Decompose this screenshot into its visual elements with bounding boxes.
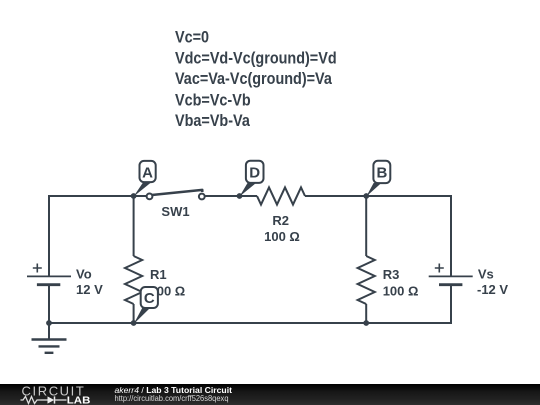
wire switch to node D / R2 left lead: [205, 195, 257, 197]
ground bar 2: [39, 345, 60, 347]
wire left vertical upper (to Vo +): [48, 195, 50, 276]
node A callout box: [140, 161, 156, 182]
node D callout tail: [240, 183, 257, 197]
svg-text:http://circuitlab.com/crff526s: http://circuitlab.com/crff526s8qexq: [115, 393, 229, 403]
node C callout tail: [134, 308, 150, 324]
wire R1 bottom lead: [133, 304, 135, 324]
node A callout tail: [134, 183, 151, 197]
wire left vertical lower (Vo - to bottom rail): [48, 285, 50, 324]
svg-text:100 Ω: 100 Ω: [383, 284, 419, 299]
wire right vertical lower (Vs - to bottom rail): [450, 285, 452, 324]
svg-text:B: B: [376, 165, 387, 182]
resistor R2 zigzag: [257, 187, 305, 204]
ground stem: [48, 323, 50, 340]
svg-text:LAB: LAB: [67, 395, 91, 405]
footer bar: [0, 384, 540, 405]
resistor R1 zigzag: [125, 256, 142, 304]
node B callout tail: [366, 183, 381, 197]
footer background: [0, 384, 540, 405]
logo wire to diode: [41, 399, 48, 401]
switch SW1 left contact circle: [147, 194, 153, 200]
node dot C (R1 bottom): [131, 320, 137, 326]
svg-text:SW1: SW1: [161, 204, 189, 219]
switch SW1 right contact circle: [199, 194, 205, 200]
svg-text:Vs: Vs: [478, 267, 494, 282]
node dot B: [363, 193, 369, 199]
voltage source Vs plus sign: [435, 264, 444, 273]
resistor R3 zigzag: [358, 256, 375, 304]
voltage source Vo short plate: [37, 283, 60, 286]
node dot R3 bottom: [363, 320, 369, 326]
logo resistor squiggle: [21, 397, 42, 404]
node C callout box: [141, 287, 158, 308]
wire bottom rail: [48, 322, 452, 324]
node dot D: [237, 193, 243, 199]
voltage source Vo plus sign: [33, 264, 42, 273]
voltage source Vs long plate: [429, 275, 473, 277]
voltage source Vs short plate: [439, 283, 462, 286]
wire right vertical upper (B to Vs +): [450, 195, 452, 276]
svg-text:-12 V: -12 V: [477, 282, 508, 297]
logo diode bar: [54, 396, 56, 403]
logo diode triangle: [48, 396, 55, 403]
ground bar 1: [32, 338, 67, 340]
svg-text:12 V: 12 V: [76, 282, 103, 297]
wire R2 right lead to node B to top-right corner: [305, 195, 452, 197]
switch SW1 lever: [152, 190, 203, 195]
svg-text:R3: R3: [383, 267, 400, 282]
ground bar 3: [45, 352, 54, 354]
svg-text:C: C: [144, 290, 155, 307]
wire R3 bottom lead: [365, 304, 367, 324]
node B callout box: [373, 161, 390, 183]
svg-text:Vo: Vo: [76, 267, 92, 282]
node dot A: [131, 193, 137, 199]
svg-text:D: D: [249, 165, 260, 182]
voltage source Vo long plate: [27, 275, 71, 277]
logo wire after diode: [55, 399, 67, 401]
svg-text:R1: R1: [150, 267, 167, 282]
svg-text:R2: R2: [272, 213, 289, 228]
svg-text:100 Ω: 100 Ω: [264, 229, 300, 244]
svg-text:A: A: [142, 165, 153, 182]
wire R1 top lead: [133, 196, 135, 256]
wire R3 top lead: [365, 196, 367, 256]
node dot ground-left: [46, 320, 52, 326]
node voltage formulas text: [175, 28, 337, 133]
node D callout box: [246, 161, 264, 183]
wire top-left (node A to switch): [48, 195, 146, 197]
